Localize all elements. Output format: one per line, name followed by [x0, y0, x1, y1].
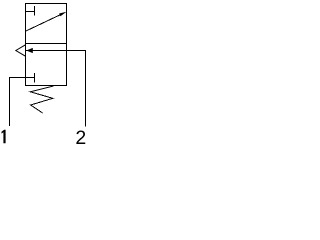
svg-text:2: 2: [75, 127, 86, 144]
